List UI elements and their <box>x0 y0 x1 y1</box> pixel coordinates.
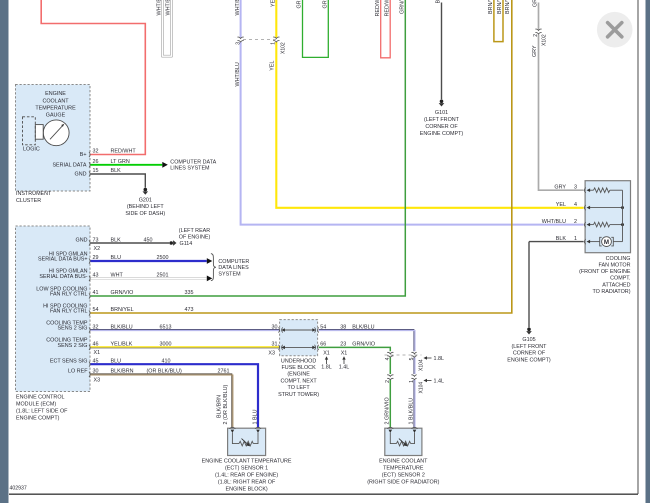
gauge dial <box>43 120 69 146</box>
svg-text:(OR BLK/BLU): (OR BLK/BLU) <box>147 369 183 375</box>
fuse block internal path row 31-66 <box>281 346 315 350</box>
svg-text:INSTRUMENT: INSTRUMENT <box>16 191 52 197</box>
svg-text:G105: G105 <box>522 337 535 343</box>
fan internal resistor from pin 3 <box>590 188 623 193</box>
svg-text:G114: G114 <box>180 241 193 247</box>
svg-text:3: 3 <box>235 42 241 45</box>
svg-text:DATA LINES: DATA LINES <box>218 265 249 271</box>
svg-text:SERIAL DATA BUS+: SERIAL DATA BUS+ <box>38 257 87 263</box>
svg-text:(LEFT FRONT: (LEFT FRONT <box>424 117 460 123</box>
svg-text:WHT/BLK: WHT/BLK <box>156 0 162 16</box>
svg-text:TO LEFT: TO LEFT <box>288 385 311 391</box>
svg-text:BLK/BLU: BLK/BLU <box>352 324 374 330</box>
fan pin 2 WHT/BLU <box>542 219 590 227</box>
svg-text:G201: G201 <box>139 197 152 203</box>
svg-text:B+: B+ <box>80 152 87 158</box>
close button <box>597 12 633 48</box>
connector X1 1.8L annotation <box>321 350 332 370</box>
svg-text:RED/WHT: RED/WHT <box>111 149 137 155</box>
svg-text:BLK/BLU: BLK/BLU <box>111 324 133 330</box>
page border bottom <box>9 493 638 495</box>
wire BLK/BLU 38 from fuse block to ECT sensor 2 <box>319 324 415 351</box>
svg-text:(RIGHT SIDE OF RADIATOR): (RIGHT SIDE OF RADIATOR) <box>367 480 439 486</box>
svg-text:COOLANT: COOLANT <box>42 98 69 104</box>
fan internal link pin 4 to bus <box>590 207 623 209</box>
svg-text:LINES SYSTEM: LINES SYSTEM <box>170 166 210 172</box>
svg-text:6513: 6513 <box>160 324 172 330</box>
svg-text:BLK/BRN: BLK/BRN <box>111 369 134 375</box>
wire BLK vertical to G101 <box>436 0 442 99</box>
connector X1 1.4L annotation <box>339 350 350 370</box>
svg-text:LT GRN: LT GRN <box>111 159 130 165</box>
motor M symbol <box>590 237 623 247</box>
svg-text:X1: X1 <box>94 350 101 356</box>
fuse block pin 30 <box>272 324 283 332</box>
pin GND 73 / X2 <box>76 237 101 252</box>
brace computer data lines system <box>211 254 216 281</box>
svg-text:FAN RLY CTRL: FAN RLY CTRL <box>50 292 88 298</box>
svg-text:TEMPERATURE: TEMPERATURE <box>383 465 424 471</box>
wire GRN/VIO 335 to top <box>91 0 406 296</box>
wire BLK vertical to G105 <box>528 242 530 328</box>
svg-text:SERIAL DATA BUS-: SERIAL DATA BUS- <box>39 274 87 280</box>
connector X102 dashed tie line <box>243 39 279 41</box>
svg-text:BLK: BLK <box>436 0 442 4</box>
svg-text:2 GRN/VIO: 2 GRN/VIO <box>385 397 391 424</box>
pin HI SPD COOLING FAN RLY CTRL 54 <box>43 303 98 315</box>
sensor 1 pin 1 socket <box>255 427 261 433</box>
svg-text:X104: X104 <box>418 359 424 371</box>
svg-text:TEMPERATURE: TEMPERATURE <box>35 105 76 111</box>
svg-text:SYSTEM: SYSTEM <box>218 271 241 277</box>
svg-text:(1.8L: LEFT SIDE OF: (1.8L: LEFT SIDE OF <box>16 409 68 415</box>
instrument cluster box <box>16 85 91 192</box>
svg-text:ENGINE COMPT): ENGINE COMPT) <box>507 358 551 364</box>
svg-text:450: 450 <box>144 237 153 243</box>
fan pin 3 GRY <box>554 184 590 192</box>
svg-text:BRN/YEL: BRN/YEL <box>111 307 134 313</box>
svg-text:X104: X104 <box>418 382 424 394</box>
svg-text:GRY: GRY <box>532 45 538 57</box>
svg-text:COOLING: COOLING <box>606 256 631 262</box>
svg-text:GRY: GRY <box>554 184 566 190</box>
svg-text:M: M <box>604 239 609 246</box>
svg-text:X102: X102 <box>542 34 548 46</box>
ECT sensor 1 box <box>202 428 292 493</box>
svg-text:4: 4 <box>574 202 577 208</box>
svg-text:30: 30 <box>272 324 278 330</box>
pin COOLING TEMP SENS 2 SIG 46 / X1 <box>46 338 100 357</box>
svg-text:GRN/VIO: GRN/VIO <box>352 342 375 348</box>
svg-text:3000: 3000 <box>160 342 172 348</box>
instrument cluster caption <box>16 191 52 204</box>
svg-text:X1: X1 <box>323 350 330 356</box>
svg-text:ENGINE COMPT): ENGINE COMPT) <box>420 131 464 137</box>
svg-text:X2: X2 <box>94 246 101 252</box>
sensor 2 pin 2 socket <box>387 427 393 433</box>
svg-text:X3: X3 <box>268 350 275 356</box>
svg-text:23: 23 <box>340 342 346 348</box>
svg-text:LOGIC: LOGIC <box>23 147 40 153</box>
svg-text:ENGINE BLOCK): ENGINE BLOCK) <box>225 487 267 493</box>
svg-text:(LEFT FRONT: (LEFT FRONT <box>512 344 548 350</box>
node computer data lines system (cluster) <box>170 159 216 171</box>
fuse block internal path row 30-54 <box>281 328 315 332</box>
svg-text:BLK/BRN: BLK/BRN <box>217 395 223 418</box>
svg-text:ECT SENS SIG: ECT SENS SIG <box>50 358 88 364</box>
wire RED/WHT loop at top <box>375 0 391 58</box>
wire WHT/BLU vertical from top to fan pin 2 <box>235 0 584 225</box>
svg-text:X3: X3 <box>94 377 101 383</box>
svg-text:GRN/VIO: GRN/VIO <box>111 290 134 296</box>
connector X102 break on YEL, pin 1 <box>271 37 287 54</box>
wire GRN/VIO 2 to sensor 2 <box>385 380 391 428</box>
fan pin 4 YEL <box>556 202 590 210</box>
svg-text:2761: 2761 <box>218 369 230 375</box>
wire WHT loop at top <box>156 0 171 56</box>
svg-text:38: 38 <box>340 324 346 330</box>
pin GND 15 <box>75 168 99 177</box>
svg-text:SENS 2 SIG: SENS 2 SIG <box>58 326 88 332</box>
svg-text:335: 335 <box>185 290 194 296</box>
pin ECT SENS SIG 45 <box>50 358 99 366</box>
svg-text:(1.4L: REAR OF ENGINE): (1.4L: REAR OF ENGINE) <box>215 473 278 479</box>
svg-text:(LEFT REAR: (LEFT REAR <box>179 228 210 234</box>
fuse block pin 66 / X1 <box>315 342 327 350</box>
svg-text:G101: G101 <box>435 110 448 116</box>
svg-text:2500: 2500 <box>157 255 169 261</box>
svg-text:(FRONT OF ENGINE: (FRONT OF ENGINE <box>579 269 631 275</box>
svg-text:COMPUTER DATA: COMPUTER DATA <box>170 159 216 165</box>
wire BLK 450 to G114 <box>91 237 170 243</box>
svg-text:(BEHIND LEFT: (BEHIND LEFT <box>127 204 165 210</box>
wire WHT 2501 <box>91 273 207 279</box>
wire YEL vertical from top to fan pin 4 <box>269 0 583 208</box>
svg-text:ENGINE COOLANT TEMPERATURE: ENGINE COOLANT TEMPERATURE <box>202 458 292 464</box>
logic block U-cluster <box>23 117 40 153</box>
wire GRN/VIO 23 from fuse block to ECT sensor 2 <box>319 342 391 352</box>
svg-text:UNDERHOOD: UNDERHOOD <box>281 358 316 364</box>
svg-text:GND: GND <box>75 172 87 178</box>
svg-text:GRN/VIO: GRN/VIO <box>400 0 406 14</box>
svg-text:SIDE OF DASH): SIDE OF DASH) <box>125 211 165 217</box>
arrow BLU to computer data lines <box>207 258 213 264</box>
connector X102 break on GRY, pin 2 <box>533 29 548 46</box>
svg-text:BLK: BLK <box>111 168 122 174</box>
svg-text:FAN MOTOR: FAN MOTOR <box>599 263 631 269</box>
svg-text:3: 3 <box>574 184 577 190</box>
connector X104 break row 4/5 with dashed tie <box>385 352 445 371</box>
svg-text:ENGINE COMPT): ENGINE COMPT) <box>16 415 60 421</box>
sensor 2 pin 1 socket <box>412 427 418 433</box>
svg-text:WHT/BLK: WHT/BLK <box>166 0 172 16</box>
svg-text:WHT/BLU: WHT/BLU <box>542 219 566 225</box>
svg-text:WHT: WHT <box>111 273 124 279</box>
svg-text:YEL: YEL <box>271 0 277 7</box>
ground G114 <box>169 228 210 247</box>
wire LT GRN serial data <box>91 159 163 165</box>
svg-text:2: 2 <box>533 34 539 37</box>
gauge coil box <box>35 125 43 140</box>
svg-text:BRN/YEL: BRN/YEL <box>497 0 503 14</box>
svg-text:RED/WHT: RED/WHT <box>375 0 381 17</box>
svg-text:GRN: GRN <box>323 0 329 9</box>
underhood fuse block box <box>278 320 319 398</box>
svg-text:COMPT.: COMPT. <box>610 276 630 282</box>
ground G201 <box>125 188 165 217</box>
wire BRN/YEL loop at top <box>488 0 503 42</box>
fan internal bus wire <box>622 190 624 241</box>
svg-text:(1.8L: RIGHT REAR OF: (1.8L: RIGHT REAR OF <box>218 480 276 486</box>
wire BLK/BLU 1 to sensor 2 <box>409 380 415 428</box>
cooling fan motor box <box>579 181 631 295</box>
svg-text:ATTACHED: ATTACHED <box>602 282 630 288</box>
wire BLU 410 to ECT sensor 1 <box>91 358 259 428</box>
fan pin 1 BLK <box>556 236 590 244</box>
svg-text:ENGINE COOLANT: ENGINE COOLANT <box>379 458 428 464</box>
svg-text:CLUSTER: CLUSTER <box>16 198 41 204</box>
svg-text:SERIAL DATA: SERIAL DATA <box>52 162 86 168</box>
connector X104 break row 2/1 <box>385 375 444 394</box>
wire BLK/BLU between X104 sections <box>414 358 415 375</box>
svg-text:BLK: BLK <box>111 237 122 243</box>
arrow WHT to computer data lines <box>207 276 213 282</box>
node computer data lines system (ECM) <box>218 259 249 277</box>
svg-text:YEL: YEL <box>269 61 275 71</box>
sensor 1 pin 2 socket <box>229 427 235 433</box>
svg-text:473: 473 <box>185 307 194 313</box>
fuse block pin 31 / X3 <box>268 342 282 357</box>
wire BLK fan to G105 <box>529 241 584 243</box>
thermistor inside sensor 1 <box>232 433 258 447</box>
svg-text:(ECT) SENSOR 1: (ECT) SENSOR 1 <box>225 465 268 471</box>
svg-text:COMPT. NEXT: COMPT. NEXT <box>280 378 317 384</box>
svg-text:1.8L: 1.8L <box>434 356 445 362</box>
svg-text:(ECT) SENSOR 2: (ECT) SENSOR 2 <box>382 473 425 479</box>
pin HI SPD GMLAN SERIAL DATA BUS- 43 <box>39 269 98 281</box>
wire BLU 2500 <box>91 255 207 261</box>
svg-text:31: 31 <box>272 342 278 348</box>
junction dot pin 2 bus <box>621 223 624 226</box>
svg-text:2 (OR BLK/BLU): 2 (OR BLK/BLU) <box>223 384 229 424</box>
svg-text:GRN: GRN <box>297 0 303 9</box>
svg-text:WHT/BLU: WHT/BLU <box>235 62 241 86</box>
svg-text:STRUT TOWER): STRUT TOWER) <box>278 392 319 398</box>
svg-text:OF ENGINE): OF ENGINE) <box>179 234 211 240</box>
svg-text:BLU: BLU <box>111 358 122 364</box>
wire GRN loop at top <box>297 0 329 57</box>
svg-text:2: 2 <box>574 219 577 225</box>
svg-text:X102: X102 <box>280 42 286 54</box>
wire BRN/YEL 473 to top <box>91 0 512 313</box>
svg-text:1 BLU: 1 BLU <box>252 409 258 424</box>
svg-text:YEL/BLK: YEL/BLK <box>111 342 133 348</box>
svg-text:GAUGE: GAUGE <box>46 113 66 119</box>
fan internal resistor from pin 2 <box>590 222 623 227</box>
svg-text:1 BLK/BLU: 1 BLK/BLU <box>409 398 415 425</box>
wire RED/WHT from B+ to top <box>41 0 145 155</box>
svg-text:402937: 402937 <box>10 486 27 492</box>
svg-text:1.4L: 1.4L <box>339 364 350 370</box>
fuse block pin 54 <box>315 324 327 332</box>
ECT sensor 2 box <box>367 428 439 485</box>
wire BLK/BLU 6513 to fuse block <box>91 324 280 330</box>
pin LO REF 30 / X3 <box>68 369 100 384</box>
pin HI SPD GMLAN SERIAL DATA BUS+ 29 <box>38 251 98 263</box>
svg-text:ENGINE CONTROL: ENGINE CONTROL <box>16 395 65 401</box>
svg-text:1: 1 <box>271 42 277 45</box>
svg-text:MODULE (ECM): MODULE (ECM) <box>16 402 56 408</box>
ECM box <box>16 226 91 421</box>
svg-text:CORNER OF: CORNER OF <box>513 351 546 357</box>
svg-text:FAN RLY CTRL: FAN RLY CTRL <box>50 309 88 315</box>
svg-text:COMPUTER: COMPUTER <box>218 259 249 265</box>
pin COOLING TEMP SENS 2 SIG 32 <box>46 320 98 332</box>
wire GRY vertical from top to fan pin 3 <box>532 0 583 190</box>
svg-text:ENGINE: ENGINE <box>45 91 66 97</box>
arrow to computer data lines system <box>162 162 168 168</box>
pin LOW SPD COOLING FAN RLY CTRL 41 <box>36 286 98 298</box>
svg-text:1.8L: 1.8L <box>321 364 332 370</box>
svg-text:410: 410 <box>162 358 171 364</box>
svg-text:TO RADIATOR): TO RADIATOR) <box>592 289 630 295</box>
svg-text:1.4L: 1.4L <box>434 379 445 385</box>
svg-text:LO REF: LO REF <box>68 369 88 375</box>
wire BLK/BRN (OR BLK/BLU) 2761 to ECT sensor 1 <box>91 369 233 428</box>
page border right <box>637 0 639 494</box>
svg-text:GND: GND <box>76 237 88 243</box>
wire BLK cluster ground <box>91 168 146 187</box>
wire YEL/BLK 3000 to fuse block <box>91 342 280 348</box>
ground G101 <box>420 100 464 138</box>
pin B+ 32 <box>80 149 99 158</box>
svg-text:GRY: GRY <box>533 0 539 7</box>
svg-text:RED/WHT: RED/WHT <box>384 0 390 17</box>
svg-text:(ENGINE: (ENGINE <box>287 372 310 378</box>
pin SERIAL DATA 26 <box>52 159 98 168</box>
junction dot pin 4 bus <box>621 206 624 209</box>
svg-text:SENS 2 SIG: SENS 2 SIG <box>58 343 88 349</box>
svg-text:FUSE BLOCK: FUSE BLOCK <box>282 365 317 371</box>
ground G105 <box>507 328 551 364</box>
connector X102 break on WHT/BLU, pin 3 <box>235 37 244 45</box>
svg-text:CORNER OF: CORNER OF <box>425 124 458 130</box>
svg-text:BLU: BLU <box>111 255 122 261</box>
thermistor inside sensor 2 <box>390 433 414 447</box>
svg-text:WHT/BLU: WHT/BLU <box>235 0 241 16</box>
svg-text:BRN/YEL: BRN/YEL <box>488 0 494 14</box>
svg-text:BRN/YEL: BRN/YEL <box>505 0 511 14</box>
svg-text:X1: X1 <box>341 350 348 356</box>
svg-text:YEL: YEL <box>556 202 566 208</box>
svg-text:2501: 2501 <box>157 273 169 279</box>
wire GRN/VIO between X104 sections <box>389 358 391 375</box>
